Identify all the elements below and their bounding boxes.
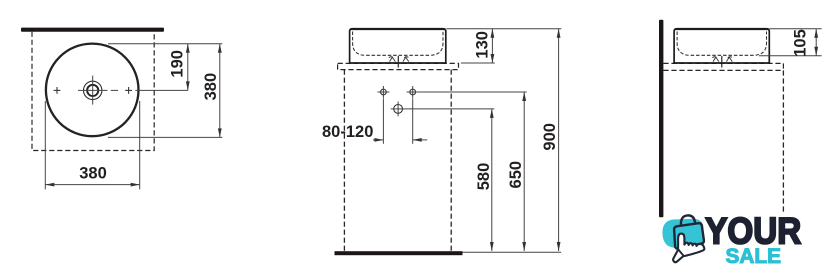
svg-text:130: 130 <box>474 31 492 59</box>
svg-text:190: 190 <box>168 50 186 78</box>
svg-text:380: 380 <box>202 73 220 101</box>
svg-text:SALE: SALE <box>726 244 782 268</box>
svg-text:900: 900 <box>541 123 559 151</box>
svg-text:80-120: 80-120 <box>322 123 373 141</box>
svg-text:650: 650 <box>507 161 525 189</box>
svg-text:105: 105 <box>791 29 809 57</box>
svg-text:580: 580 <box>475 163 493 191</box>
svg-text:380: 380 <box>79 165 107 183</box>
